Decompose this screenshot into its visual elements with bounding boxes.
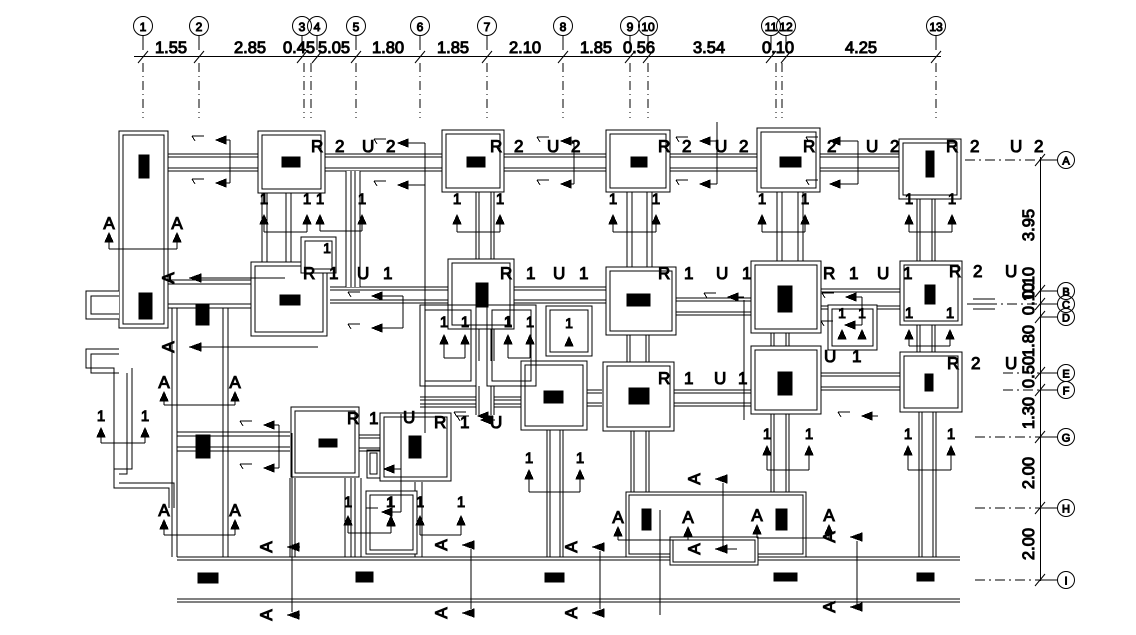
grid circle E: [1040, 365, 1075, 382]
section marker a8: [257, 609, 300, 621]
section cut boxesR: [504, 314, 534, 358]
detail arrow st3 a: [537, 137, 574, 145]
detail arrow st6 a: [348, 292, 403, 300]
svg-text:5: 5: [353, 20, 360, 34]
svg-text:U: U: [714, 369, 726, 388]
grid line 5: [355, 63, 357, 118]
section cut Q5-S5: [905, 305, 954, 346]
strip wall wall below P4: [777, 192, 803, 261]
column block1 c1: [642, 509, 651, 530]
grid line 7: [486, 63, 488, 118]
section cut P2: [453, 191, 504, 232]
column corridor b2b: [196, 304, 209, 325]
detail arrow st1 a: [192, 136, 230, 144]
strip wall wall below P3: [627, 192, 652, 267]
svg-text:1.85: 1.85: [580, 39, 612, 57]
svg-text:1: 1: [838, 305, 846, 321]
svg-text:B: B: [1062, 287, 1069, 299]
svg-text:5.05: 5.05: [318, 39, 350, 57]
section trace st2: [424, 143, 426, 185]
svg-text:1: 1: [260, 191, 268, 208]
svg-text:A: A: [432, 607, 451, 619]
strip wall top band: [168, 154, 899, 171]
section cut below S0: [344, 494, 395, 533]
svg-text:6: 6: [417, 20, 424, 34]
strip wall wall Q4-S4: [771, 333, 789, 346]
svg-text:A: A: [158, 373, 170, 392]
grid line 12: [781, 63, 783, 118]
svg-text:U: U: [547, 137, 559, 156]
column Q4: [778, 286, 792, 312]
leader line F: [1003, 389, 1040, 391]
column strip s3: [545, 573, 564, 582]
svg-text:A: A: [159, 341, 178, 353]
svg-text:A: A: [612, 508, 624, 527]
section trace P3 up: [716, 122, 718, 141]
grid circle H: [1040, 500, 1075, 517]
svg-text:1: 1: [358, 191, 366, 208]
footing pad S3: [603, 362, 674, 431]
svg-text:U: U: [1005, 354, 1017, 373]
footing pad Q1: [251, 262, 327, 336]
section cut A mid: [158, 373, 241, 405]
leader line A: [965, 159, 1040, 161]
svg-text:U: U: [866, 137, 878, 156]
svg-text:R: R: [347, 409, 359, 428]
grid line 10: [647, 63, 649, 118]
svg-text:U: U: [403, 408, 415, 427]
strip wall wall P1-P2 mid: [346, 171, 360, 287]
column P5: [926, 151, 934, 177]
grid circle C: [1040, 296, 1075, 313]
svg-text:1: 1: [504, 314, 512, 331]
strip wall wall S3 down: [631, 431, 649, 492]
block1 A cuts: [612, 506, 835, 540]
strip wall wall Q5-S5: [917, 325, 935, 352]
protrusion upper left: [86, 291, 119, 319]
svg-text:2: 2: [571, 137, 580, 156]
section arrow blk A3: [751, 506, 763, 534]
svg-text:R: R: [658, 369, 670, 388]
footing pad Q3: [606, 267, 676, 335]
strip wall row2 band Q3-Q4: [676, 298, 751, 315]
column strip s4: [774, 573, 797, 581]
svg-text:R: R: [658, 264, 670, 283]
svg-text:R: R: [658, 137, 670, 156]
svg-text:1.85: 1.85: [437, 39, 469, 57]
strip wall row3 band left of S0: [177, 431, 290, 433]
grid circle 4: [308, 17, 327, 51]
small box SpE below P1: [301, 237, 336, 273]
section marker a7: [685, 543, 737, 555]
svg-text:R: R: [490, 137, 502, 156]
column Q2: [476, 283, 488, 307]
section marker a4: [432, 539, 474, 551]
grid circle 9: [621, 17, 640, 51]
section trace st5: [857, 141, 859, 184]
svg-text:1: 1: [758, 191, 766, 208]
section cut P5: [905, 191, 956, 232]
bracket a4-a9: [470, 549, 472, 609]
svg-text:A: A: [432, 539, 451, 551]
svg-text:1: 1: [344, 494, 352, 511]
svg-text:1: 1: [742, 264, 751, 283]
svg-text:1: 1: [852, 347, 861, 366]
svg-text:A: A: [751, 506, 763, 525]
column corridor b3: [196, 435, 210, 458]
column P3: [631, 157, 647, 167]
leader line E: [1003, 372, 1040, 374]
protrusion hook lower left: [86, 349, 174, 508]
strip wall bottom strip: [177, 557, 960, 602]
svg-text:A: A: [823, 506, 835, 525]
long trace x857: [856, 541, 858, 607]
svg-text:1.80: 1.80: [1020, 325, 1038, 357]
grid line 9: [629, 63, 631, 118]
tall block left: [119, 131, 168, 328]
strip wall wall center down: [547, 430, 563, 557]
section trace st6: [402, 296, 404, 328]
section cut in SpC: [386, 494, 395, 533]
svg-text:U: U: [716, 264, 728, 283]
svg-text:2: 2: [971, 354, 980, 373]
walls below S0: [289, 478, 291, 557]
column P2: [467, 157, 485, 167]
labels row3: [347, 347, 1017, 432]
section cut P4: [758, 191, 809, 232]
svg-text:U: U: [824, 347, 836, 366]
svg-text:1: 1: [140, 20, 147, 34]
section cut boxesL: [440, 314, 469, 358]
footing pad S4: [751, 346, 821, 414]
svg-text:D: D: [1062, 313, 1070, 325]
strip wall row2 band Q2-Q3: [514, 287, 606, 303]
footing pad S5: [900, 352, 962, 412]
bracket a5-a10: [599, 551, 601, 609]
svg-text:1: 1: [849, 264, 858, 283]
svg-text:1: 1: [141, 408, 149, 425]
svg-text:1.30: 1.30: [1020, 397, 1038, 429]
svg-text:A: A: [685, 543, 704, 555]
svg-text:1: 1: [905, 191, 913, 208]
section trace P1-P2 long: [424, 185, 426, 433]
detail arrow t19: [240, 421, 279, 429]
svg-text:1: 1: [904, 426, 912, 443]
svg-text:1: 1: [905, 305, 913, 322]
svg-text:1: 1: [579, 264, 588, 283]
svg-text:1: 1: [369, 409, 378, 428]
detail arrow SpC: [366, 508, 401, 516]
footing pad SpA: [546, 306, 592, 356]
footing pad Q4: [751, 261, 821, 333]
grid circle 5: [347, 17, 366, 51]
svg-text:0.56: 0.56: [623, 39, 655, 57]
section trace st1: [229, 140, 231, 183]
strip wall row3 band S3-S4: [673, 390, 751, 406]
svg-text:0.50: 0.50: [1020, 356, 1038, 388]
detail arrow st4 b: [676, 180, 717, 188]
wall below Tmid: [414, 482, 416, 557]
svg-text:R: R: [303, 264, 315, 283]
grid circle 6: [411, 17, 430, 51]
strip wall wall below P1 a: [262, 193, 291, 262]
footing pad SpC: [366, 491, 417, 554]
svg-text:1: 1: [97, 408, 105, 425]
section cut A lower: [158, 501, 241, 535]
column strip s5: [917, 573, 934, 581]
detail arrow t13: [822, 293, 862, 301]
svg-text:U: U: [362, 137, 374, 156]
strip wall row3 band S2-S3: [587, 390, 602, 406]
section arrow blk A1: [612, 508, 624, 536]
column strip s2: [356, 572, 373, 582]
svg-text:1: 1: [738, 369, 747, 388]
svg-text:A: A: [1062, 156, 1070, 168]
svg-text:A: A: [257, 541, 276, 553]
svg-text:1: 1: [440, 314, 448, 331]
grid circle 12: [777, 17, 796, 51]
footing pad P1: [258, 131, 325, 193]
top dimension labels: [155, 39, 877, 57]
footing pad Q2: [448, 259, 514, 329]
section trace st4: [716, 141, 718, 184]
right dimension line: [1040, 157, 1042, 581]
footing pad P2: [442, 130, 504, 192]
section cut S4 below: [763, 426, 813, 470]
room box right under Q2: [487, 305, 536, 386]
svg-text:3.95: 3.95: [1020, 209, 1038, 241]
svg-text:A: A: [159, 272, 178, 284]
svg-text:A: A: [562, 541, 581, 553]
svg-text:R: R: [500, 264, 512, 283]
column S3: [629, 388, 649, 404]
svg-text:2: 2: [386, 137, 395, 156]
section marker a12: [820, 601, 862, 613]
grid line 8: [562, 63, 564, 118]
svg-text:U: U: [553, 264, 565, 283]
strip wall wall Q3-S3: [627, 335, 649, 363]
svg-text:0.45: 0.45: [283, 39, 315, 57]
block bottom right: [626, 492, 806, 557]
svg-text:1: 1: [948, 191, 956, 208]
section arrow blk A2: [682, 508, 694, 536]
grid line 11: [775, 63, 777, 118]
grid circle 7: [478, 17, 497, 51]
detail arrow st1 b: [192, 179, 230, 187]
svg-text:2.00: 2.00: [1020, 528, 1038, 560]
svg-text:0.10: 0.10: [762, 39, 794, 57]
svg-text:1: 1: [316, 191, 324, 208]
svg-text:R: R: [803, 137, 815, 156]
svg-text:2: 2: [682, 137, 691, 156]
svg-text:3: 3: [299, 20, 306, 34]
svg-text:10: 10: [641, 20, 655, 34]
leader line G: [975, 436, 1040, 438]
strip wall wall S4 down: [771, 414, 789, 492]
section arrow blk A4: [823, 506, 835, 534]
strip wall wall Q2 down: [476, 329, 494, 361]
svg-text:1: 1: [457, 494, 465, 511]
svg-text:A: A: [229, 373, 241, 392]
svg-text:1: 1: [329, 264, 338, 283]
svg-text:U: U: [1005, 262, 1017, 281]
svg-text:8: 8: [560, 20, 567, 34]
svg-text:1.55: 1.55: [155, 39, 187, 57]
leader line BCD: [967, 303, 1040, 305]
grid circle 2: [190, 17, 209, 51]
svg-text:2.85: 2.85: [234, 39, 266, 57]
svg-text:R: R: [823, 264, 835, 283]
svg-text:C: C: [1062, 300, 1070, 312]
svg-text:7: 7: [484, 20, 491, 34]
long trace x723: [722, 483, 724, 549]
svg-text:2: 2: [196, 20, 203, 34]
column S2: [544, 391, 563, 403]
column tall block b1: [139, 155, 149, 178]
section cut SpD: [838, 305, 866, 339]
section cut S2 below: [525, 450, 584, 492]
detail arrow mid: [384, 465, 394, 473]
svg-text:A: A: [158, 501, 170, 520]
column block1 c2: [776, 509, 787, 530]
svg-text:1: 1: [652, 191, 660, 208]
strip wall wall S5 down: [919, 412, 936, 557]
section marker a6: [685, 473, 727, 485]
svg-text:1: 1: [525, 450, 533, 467]
grid line 3: [303, 63, 305, 118]
detail arrow st4 a: [676, 137, 717, 145]
detail arrow t20: [240, 464, 279, 472]
svg-text:U: U: [877, 264, 889, 283]
grid circle 13: [927, 17, 946, 51]
grid circle 3: [293, 17, 312, 51]
grid line 2: [198, 63, 200, 118]
section cut hook 11: [97, 408, 149, 443]
long trace x660: [659, 510, 661, 615]
grid circle 11: [762, 17, 781, 51]
svg-text:U: U: [357, 264, 369, 283]
grid line 1: [142, 63, 144, 118]
section marker a5: [562, 541, 604, 553]
section marker a2: [159, 341, 318, 353]
svg-text:A: A: [103, 214, 115, 233]
strip wall wall below P2: [476, 192, 494, 259]
corridor below block: [670, 537, 758, 565]
svg-text:1: 1: [576, 450, 584, 467]
footing pad S0: [291, 407, 359, 477]
svg-text:1: 1: [303, 191, 311, 208]
column S0: [319, 439, 337, 447]
strip wall corridor C1: [172, 283, 228, 557]
svg-text:1: 1: [947, 426, 955, 443]
svg-text:1: 1: [496, 191, 504, 208]
section cut P1 left: [260, 191, 311, 232]
section trace st3: [573, 141, 575, 184]
strip wall wall boxes down: [476, 386, 494, 415]
svg-text:G: G: [1062, 433, 1071, 445]
svg-text:3.54: 3.54: [693, 39, 725, 57]
svg-text:1: 1: [461, 314, 469, 331]
detail arrow t18: [838, 412, 878, 420]
grid circle G: [1040, 429, 1075, 446]
svg-text:1.80: 1.80: [372, 39, 404, 57]
column S5: [925, 374, 933, 391]
grid line 6: [419, 63, 421, 118]
column left room b2: [139, 293, 152, 319]
section marker a9: [432, 607, 474, 619]
svg-text:2: 2: [973, 262, 982, 281]
footing pad SpD: [828, 305, 877, 350]
svg-text:A: A: [562, 607, 581, 619]
svg-text:1: 1: [609, 191, 617, 208]
svg-text:E: E: [1062, 369, 1069, 381]
svg-text:4.25: 4.25: [845, 39, 877, 57]
strip wall row2 band Q4-Q5: [821, 289, 900, 309]
detail arrow st2 a: [374, 139, 425, 147]
svg-text:A: A: [820, 601, 839, 613]
strip wall row3 band S0-Tmid: [359, 435, 381, 451]
strip wall band boxes bottom: [420, 397, 521, 407]
grid circle 1: [134, 17, 153, 51]
section marker a1: [159, 272, 285, 284]
footing pad P4: [757, 128, 820, 192]
leader line H: [975, 507, 1040, 509]
leader line I: [975, 579, 1040, 581]
svg-text:R: R: [949, 262, 961, 281]
svg-text:R: R: [946, 137, 958, 156]
detail arrow t15: [457, 416, 495, 424]
svg-text:0.10: 0.10: [1020, 283, 1038, 315]
grid line 4: [310, 63, 312, 118]
long trace x744: [743, 300, 745, 420]
labels row1: [311, 137, 1043, 156]
svg-text:2: 2: [514, 137, 523, 156]
detail arrow st3 b: [537, 180, 574, 188]
open box left of Tmid: [367, 450, 380, 478]
top dimension line: [134, 56, 941, 58]
svg-text:I: I: [1064, 576, 1067, 588]
room box left under Q2: [420, 305, 476, 386]
section marker a10: [562, 607, 604, 619]
grid circle D: [1040, 309, 1075, 326]
column Q1: [280, 295, 300, 305]
svg-text:H: H: [1062, 504, 1070, 516]
detail arrow t17: [454, 412, 493, 420]
section trace x401: [400, 414, 402, 512]
svg-text:U: U: [1010, 137, 1022, 156]
svg-text:1: 1: [383, 264, 392, 283]
svg-text:A: A: [685, 473, 704, 485]
svg-text:A: A: [820, 531, 839, 543]
svg-text:11: 11: [765, 20, 778, 34]
grid circle F: [1040, 382, 1075, 399]
svg-text:R: R: [434, 413, 446, 432]
svg-text:A: A: [229, 501, 241, 520]
section cut P3: [609, 191, 660, 232]
svg-text:1: 1: [526, 264, 535, 283]
svg-text:2: 2: [1034, 137, 1043, 156]
column S4: [778, 372, 792, 395]
detail arrow st6 b: [348, 324, 403, 332]
svg-text:2.10: 2.10: [509, 39, 541, 57]
svg-text:R: R: [947, 354, 959, 373]
svg-text:A: A: [257, 609, 276, 621]
svg-text:1: 1: [684, 264, 693, 283]
column P4: [780, 157, 801, 167]
svg-text:2: 2: [739, 137, 748, 156]
detail arrow t14: [821, 321, 862, 329]
section cut S5 below: [904, 426, 955, 470]
